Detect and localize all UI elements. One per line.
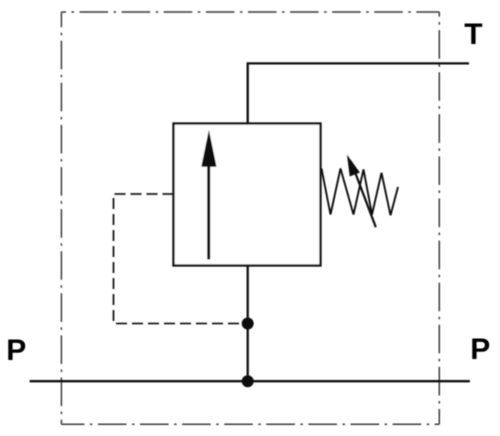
svg-text:P: P [6,334,26,367]
svg-text:T: T [464,18,482,51]
svg-text:P: P [470,333,490,366]
